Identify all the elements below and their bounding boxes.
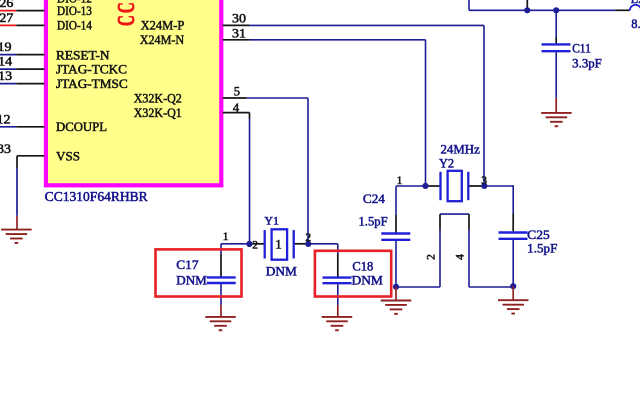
svg-text:DIO-13: DIO-13 [57,3,92,18]
svg-text:C17: C17 [176,258,198,272]
svg-text:2: 2 [252,240,258,252]
svg-text:DNM: DNM [176,273,207,287]
svg-text:JTAG-TMSC: JTAG-TMSC [56,76,128,91]
svg-text:19: 19 [0,40,12,54]
svg-text:24MHz: 24MHz [441,143,481,157]
svg-text:DIO-14: DIO-14 [57,18,92,33]
svg-text:VSS: VSS [56,148,80,163]
svg-text:DCOUPL: DCOUPL [56,119,107,134]
svg-text:27: 27 [0,11,13,25]
svg-text:12: 12 [0,112,11,126]
svg-text:Y1: Y1 [264,215,279,227]
svg-text:X32K-Q2: X32K-Q2 [134,91,182,106]
svg-text:1.5pF: 1.5pF [359,215,388,229]
svg-text:30: 30 [232,12,246,26]
svg-text:X32K-Q1: X32K-Q1 [134,105,182,120]
svg-text:DNM: DNM [266,264,297,278]
svg-text:X24M-P: X24M-P [141,18,185,33]
svg-text:1: 1 [275,237,282,252]
svg-text:14: 14 [0,54,13,68]
svg-text:2: 2 [305,232,311,244]
svg-text:X24M-N: X24M-N [140,32,185,47]
svg-text:JTAG-TCKC: JTAG-TCKC [56,61,127,76]
svg-text:RESET-N: RESET-N [56,47,110,62]
svg-text:C25: C25 [527,228,550,242]
svg-text:CC1310F64RHBR: CC1310F64RHBR [45,189,148,204]
svg-text:31: 31 [232,26,246,40]
svg-text:1: 1 [223,231,229,243]
svg-text:5: 5 [234,84,240,98]
svg-text:4: 4 [233,101,240,115]
svg-text:33: 33 [0,142,11,156]
svg-text:2: 2 [426,254,438,260]
svg-text:13: 13 [0,69,12,83]
svg-text:8.2nH: 8.2nH [631,17,640,31]
svg-text:3.3pF: 3.3pF [572,57,602,71]
svg-text:Y2: Y2 [439,156,454,170]
svg-text:DNM: DNM [352,273,383,287]
svg-text:26: 26 [0,0,13,10]
svg-text:1.5pF: 1.5pF [527,241,557,255]
svg-text:3: 3 [481,175,487,187]
svg-text:4: 4 [455,254,467,260]
svg-text:CC1310F64RHBR: CC1310F64RHBR [114,0,140,26]
svg-text:C24: C24 [363,192,386,206]
svg-text:C11: C11 [572,41,591,55]
svg-text:L2: L2 [631,0,640,6]
svg-text:1: 1 [397,175,403,187]
svg-text:C18: C18 [352,260,373,274]
